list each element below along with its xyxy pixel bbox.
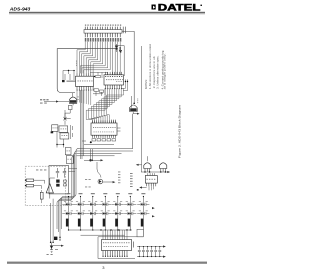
cluster tick marks	[71, 125, 73, 139]
small text left of Q1	[85, 178, 87, 181]
transistor T1 can	[144, 163, 151, 169]
U2 right corner wires	[121, 79, 128, 90]
U2 bottom pin feet	[105, 87, 106, 90]
transistor Q4 (dome can)	[130, 105, 138, 112]
U1 internal text dots	[78, 80, 79, 83]
U3 right side pin	[117, 128, 121, 131]
label column x118	[118, 171, 120, 174]
wire Q2 right with arrow	[52, 245, 62, 247]
wire bus under U3	[82, 141, 114, 145]
Q3 input/output wires	[59, 93, 74, 105]
wire bundle horizontals	[77, 151, 134, 156]
wire U4 to left arrow	[141, 187, 147, 189]
connector P1 pin numbers row	[85, 25, 86, 26]
wire from P1 right end	[122, 30, 134, 32]
U5 internal text dots row2	[104, 245, 105, 248]
connector P1 extra pins right	[123, 27, 125, 34]
wire Q3 box down to node A	[65, 110, 70, 118]
logic box B2	[59, 126, 68, 132]
input pin dots	[25, 180, 26, 181]
S-bundle end junction dots	[59, 237, 60, 238]
wire T1 top	[146, 156, 148, 161]
power rail wire	[141, 171, 168, 173]
ground ticks bottom left	[50, 250, 58, 253]
capacitor grid top labels	[67, 193, 71, 194]
U3 bottom pin ticks	[93, 135, 116, 138]
resistor R4 vertical	[40, 192, 43, 199]
dark pad D2	[56, 180, 59, 183]
ground mark bottom left of U4	[137, 189, 139, 191]
svg-text:at a single point only.: at a single point only.	[163, 53, 167, 89]
svg-text:ADS-943: ADS-943	[9, 7, 31, 12]
wire drops into U5	[103, 230, 127, 240]
op-amp A1	[46, 184, 53, 193]
cap bank rails	[137, 247, 163, 257]
svg-text:DATEL: DATEL	[158, 2, 201, 13]
wire Q1 out with arrow	[103, 181, 114, 183]
capacitor grid bottom bus 2	[81, 234, 125, 236]
dark pad D3	[56, 184, 59, 187]
resistor R1	[26, 179, 33, 182]
wire to Q1	[97, 162, 101, 178]
junction blob node B	[89, 159, 91, 161]
capacitor grid cap symbols	[62, 203, 149, 215]
U4 top ticks	[148, 173, 155, 175]
transistor Q2 dark	[50, 246, 53, 249]
Q4 side dashes	[137, 99, 139, 104]
wire bundle S-curve down to bottom-left	[57, 149, 79, 240]
U5 bottom pin feet	[103, 255, 104, 258]
small box above U5 right	[137, 229, 143, 237]
wire bus straight drops to U2	[113, 42, 121, 75]
U5 bottom pin ticks	[103, 251, 127, 257]
node A junction	[64, 118, 66, 120]
connector P1 signal labels row	[85, 38, 87, 42]
transistor T2 can	[160, 163, 167, 169]
U3 top pin ticks	[93, 120, 116, 123]
diode D1 second junction + stubs	[120, 47, 121, 52]
cap bank junction dots	[139, 246, 140, 247]
SAR register U3 body	[91, 123, 117, 135]
U1 bottom pin feet	[77, 89, 78, 92]
resistor R2	[26, 184, 33, 187]
bus junction dots	[68, 229, 69, 230]
svg-text:3. Unless otherwise spec.: 3. Unless otherwise spec.	[155, 55, 159, 89]
U2 top pin ticks	[106, 72, 122, 75]
capacitor grid rails	[69, 196, 144, 230]
resistor row under U3	[92, 139, 116, 141]
header rule	[9, 12, 205, 13]
B4 B5 text dots	[67, 150, 68, 153]
U3 internal text dots row2	[94, 131, 95, 134]
components under U1/U2	[93, 88, 105, 96]
DC/DC converter U5 body	[102, 240, 132, 251]
cluster text dots	[53, 127, 54, 130]
junction dots bottom left	[50, 242, 52, 244]
U2 top pin junction dots	[105, 75, 106, 78]
electrolytic caps dark	[66, 219, 69, 227]
wire Q4 output right arrow	[133, 112, 138, 114]
U2 internal text dots	[106, 78, 107, 81]
dashed boundary analog section	[25, 166, 65, 206]
reference circuit junction dots	[68, 70, 69, 71]
cap bank output arrows	[163, 245, 166, 257]
timing box B5	[66, 156, 74, 164]
reference zener (dark)	[62, 80, 65, 82]
wire vertical x142	[141, 46, 143, 165]
U1 top pin ticks	[77, 73, 93, 76]
solid box input network	[49, 166, 69, 194]
rail junction dots	[144, 171, 145, 172]
wire left arrow into rail	[138, 164, 142, 166]
U5 right label	[133, 242, 134, 248]
cap bank elements	[138, 247, 161, 257]
wire bus staircase ICs to U3	[86, 88, 123, 123]
capacitor grid bottom bus	[69, 229, 133, 231]
T1 legs	[145, 169, 150, 172]
wires down from U1 bottom pins	[77, 90, 91, 105]
connector P1 top pin ticks	[85, 27, 120, 30]
wire bus left verticals	[80, 90, 83, 159]
U2 bottom pin ticks	[106, 85, 122, 88]
arrow right of node B	[101, 159, 104, 161]
capacitor C2	[63, 168, 66, 178]
timing box B4	[65, 148, 71, 155]
register U2 body	[104, 75, 124, 85]
Q4 node dot	[133, 103, 135, 105]
U4 text dots	[147, 178, 148, 181]
wire bus staircase to left vertical bus	[80, 42, 110, 74]
connector P1 body	[84, 30, 122, 34]
capacitor C1	[56, 168, 59, 178]
wire R1 R2 to node	[34, 180, 45, 189]
dark cap bottom left	[54, 237, 57, 240]
wire node A links	[65, 110, 71, 125]
wire Q4 output down-left	[77, 114, 132, 149]
resistor R3 between U1 U2	[96, 76, 101, 78]
DATEL logo	[152, 2, 202, 13]
one-shot box under Q3	[68, 105, 72, 109]
U1 bottom pin ticks	[77, 86, 93, 89]
transistor Q3 (dome can)	[69, 97, 76, 103]
wire start-convert	[44, 101, 56, 103]
B1 dark corner mark	[51, 131, 54, 133]
wire cluster down	[57, 131, 64, 147]
regulator U4 body	[145, 176, 157, 184]
transistor Q1	[98, 179, 103, 184]
diode D1 with junction	[115, 44, 122, 52]
Q3 side dots	[78, 96, 79, 99]
wires from input box right edge	[69, 169, 78, 172]
wire node B arms	[84, 149, 102, 160]
wire corner x124	[118, 46, 124, 76]
capacitor grid rail junction dots	[68, 204, 69, 205]
U4 under-pin stubs	[149, 186, 154, 190]
svg-text:NOTES:: NOTES:	[144, 79, 148, 89]
wire bus above U1/U2	[90, 72, 108, 78]
junction dots cluster	[56, 144, 57, 145]
U4 bottom pin ticks	[147, 183, 156, 186]
capacitor grid top junctions	[68, 196, 69, 197]
tiny labels bottom left	[47, 253, 49, 256]
footer rule	[7, 261, 207, 262]
last rail cap arrows	[152, 207, 155, 217]
wire R4 down	[41, 190, 43, 203]
op-amp A1 wires	[50, 178, 55, 199]
U5 internal text dots row1	[103, 241, 104, 244]
clock box B1	[52, 125, 58, 132]
capacitor grid arrowheads	[66, 203, 143, 214]
start convert input labels	[40, 99, 42, 100]
label column right of Q1	[130, 172, 133, 175]
pads right marks	[64, 180, 67, 182]
reference circuit cluster	[63, 61, 77, 82]
svg-text:Figure 2. ADS-943 Block Diagra: Figure 2. ADS-943 Block Diagram	[178, 104, 182, 158]
capacitor grid tiny value labels	[64, 200, 66, 203]
Q4 input wires	[131, 96, 133, 108]
wire bus staircase from P1 down-left into U1	[77, 42, 103, 74]
wire drops into U3 remaining pins	[111, 120, 115, 124]
wire loop left (module boundary wire)	[57, 49, 116, 93]
dashed wire right of U2	[116, 81, 125, 83]
logic box B3	[60, 133, 69, 139]
T2 legs	[161, 169, 166, 172]
wires bottom left verticals	[51, 199, 53, 243]
U5 top bus junction dots	[100, 229, 101, 230]
input labels	[36, 169, 38, 172]
op-amp/register U1 body	[76, 76, 94, 86]
enclosure box U5	[98, 229, 143, 258]
dark junction under U3	[90, 141, 92, 143]
connector P1 bottom pin ticks	[85, 33, 120, 37]
wire vertical bus right x134	[133, 31, 135, 103]
U3 internal text dots row1	[93, 126, 94, 129]
junction dots right of U2	[125, 81, 126, 82]
